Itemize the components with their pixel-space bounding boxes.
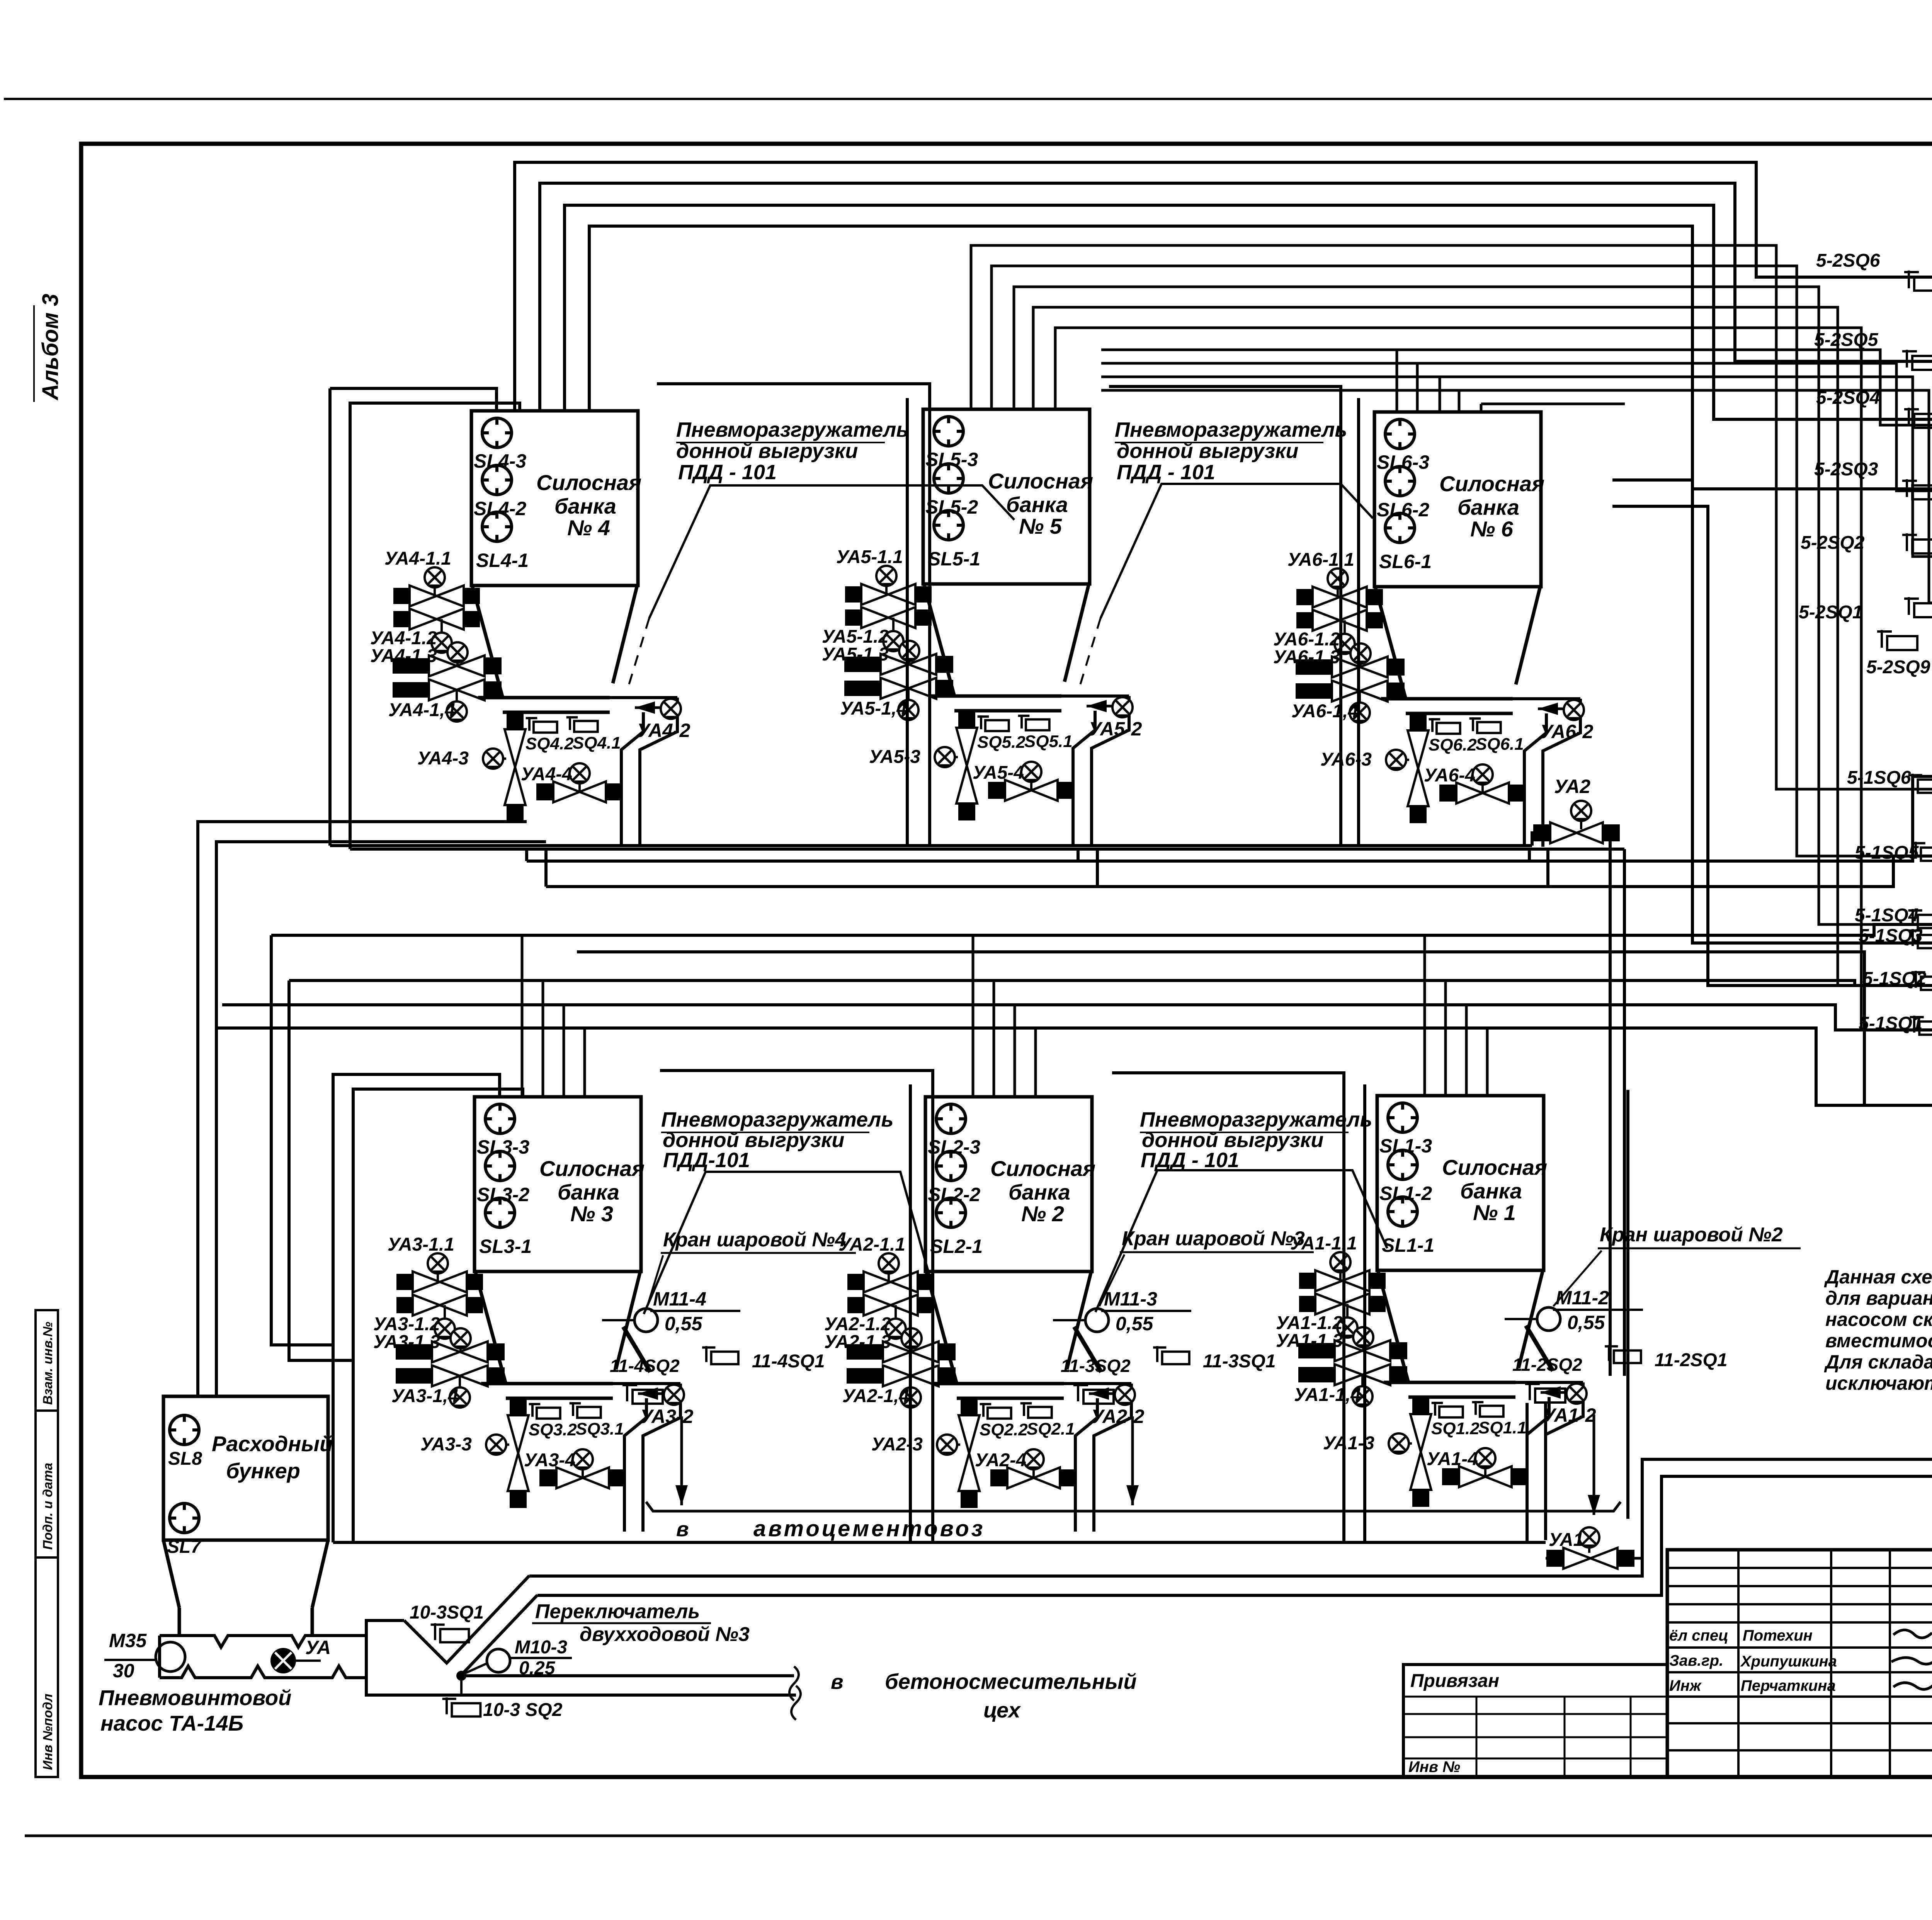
wire C1 — [1101, 350, 1932, 425]
limit switch SQ2.2 — [980, 1403, 1011, 1419]
svg-text:Пневморазгружатель: Пневморазгружатель — [661, 1108, 893, 1131]
lamp УА1-1.1 — [1339, 1262, 1342, 1281]
valve УА4-3 — [505, 712, 526, 822]
valve УА1 — [1546, 1548, 1634, 1569]
svg-text:УА3-2: УА3-2 — [640, 1406, 694, 1427]
svg-text:№ 3: № 3 — [570, 1202, 613, 1226]
hopper sensor SL8 — [170, 1415, 199, 1445]
svg-text:насос ТА-14Б: насос ТА-14Б — [100, 1711, 243, 1735]
svg-text:УА6-1.1: УА6-1.1 — [1287, 550, 1354, 570]
pump valve УА — [272, 1649, 295, 1672]
lamp УА3-2 — [664, 1385, 684, 1405]
svg-text:УА1-1.3: УА1-1.3 — [1276, 1331, 1343, 1351]
valve УА1-1.4 — [1298, 1364, 1407, 1385]
silo 6 level sensor SL6-2 — [1385, 466, 1415, 496]
svg-text:Силосная: Силосная — [990, 1156, 1095, 1181]
svg-text:Инв №: Инв № — [1408, 1758, 1460, 1775]
signatures — [1893, 1630, 1932, 1638]
wire B4 — [1033, 307, 1932, 986]
svg-text:для варианта с пневмовинтовым: для варианта с пневмовинтовым — [1825, 1287, 1932, 1309]
svg-text:SL6-2: SL6-2 — [1377, 499, 1429, 521]
svg-text:УА4-1,4: УА4-1,4 — [388, 700, 455, 720]
svg-text:банка: банка — [1006, 492, 1068, 517]
limit switch SQ5.2 — [978, 715, 1009, 731]
svg-text:М10-3: М10-3 — [515, 1637, 567, 1658]
svg-text:УА1-2: УА1-2 — [1543, 1404, 1596, 1426]
svg-text:Взам. инв.№: Взам. инв.№ — [41, 1322, 55, 1405]
svg-text:Кран шаровой №4: Кран шаровой №4 — [663, 1229, 846, 1251]
wire stub silo x1228 4 — [583, 1028, 586, 1097]
limit switch SQ6.2 — [1429, 718, 1460, 734]
lamp УА2-3 — [947, 1443, 960, 1446]
supply hopper Расходный бункер — [163, 1396, 328, 1540]
svg-text:УА5-4: УА5-4 — [973, 763, 1024, 783]
svg-text:насосом склада цемента: насосом склада цемента — [1825, 1309, 1932, 1330]
enclosure top row bottom duct — [330, 844, 1532, 847]
svg-text:Инж: Инж — [1669, 1677, 1702, 1694]
limit switch 5-2SQ9 — [1877, 630, 1917, 650]
wire stub silo x3564 1 — [1423, 935, 1426, 1097]
valve УА1-1.2 — [1299, 1294, 1386, 1314]
valve УА3-1.3 — [396, 1341, 505, 1362]
wire over silo5 to divider silo5/6 — [1109, 386, 1341, 846]
silo6 chute risers — [1528, 849, 1531, 861]
svg-text:банка: банка — [1460, 1179, 1522, 1203]
svg-text:УА3-1,4: УА3-1,4 — [391, 1386, 458, 1406]
limit switch 11-2SQ1 — [1605, 1345, 1641, 1363]
svg-text:ПДД-101: ПДД-101 — [663, 1149, 750, 1172]
svg-text:Расходный: Расходный — [212, 1431, 333, 1456]
lamp УА3-1.1 — [437, 1263, 439, 1282]
pipe pump to switch 3 — [363, 1634, 367, 1637]
svg-text:УА3-1.1: УА3-1.1 — [388, 1234, 454, 1255]
wire B1 — [971, 245, 1932, 789]
wire M3 — [271, 924, 1932, 935]
svg-text:SL1-1: SL1-1 — [1382, 1234, 1434, 1256]
silo 3 level sensor SL3-3 — [485, 1104, 515, 1134]
silo 6 funnel — [1375, 587, 1406, 699]
hopper funnel — [163, 1540, 179, 1608]
arrow down silo1 outlet — [1588, 1414, 1600, 1515]
svg-text:№ 5: № 5 — [1019, 514, 1062, 538]
valve УА1-1.3 — [1298, 1340, 1407, 1361]
svg-text:М11-3: М11-3 — [1104, 1288, 1157, 1310]
lamp УА2-2 — [1115, 1385, 1135, 1405]
limit switch 11-2SQ2 — [1525, 1382, 1565, 1403]
svg-text:№ 2: № 2 — [1021, 1202, 1064, 1226]
lamp УА6-3 — [1396, 759, 1409, 761]
wire over silo3 to divider silo3/2 — [660, 1071, 933, 1542]
lamp УА6-2 — [1564, 700, 1584, 720]
valve УА6-1.3 — [1296, 657, 1405, 677]
svg-text:Пневморазгружатель: Пневморазгружатель — [676, 418, 908, 441]
wire A2 — [515, 162, 1932, 411]
lamp УА1-1.4 — [1361, 1375, 1364, 1394]
valve УА5-1.2 — [845, 607, 932, 628]
wire C1 silo stub — [1396, 350, 1398, 412]
lamp УА2-1.1 — [888, 1263, 890, 1282]
margin column — [36, 1310, 58, 1777]
wire over silo4 to divider silo4/5 — [657, 384, 930, 846]
valve УА3-1.4 — [396, 1365, 505, 1386]
svg-text:5-1SQ3: 5-1SQ3 — [1859, 926, 1923, 946]
limit switch 5-1SQ4 — [1908, 909, 1932, 928]
valve УА4-1.1 — [393, 586, 480, 606]
pneumatic screw pump channel — [160, 1636, 363, 1647]
lamp УА1-2 — [1566, 1384, 1587, 1404]
svg-text:автоцементовоз: автоцементовоз — [753, 1516, 985, 1541]
svg-text:УА2-3: УА2-3 — [871, 1434, 923, 1455]
lamp УА3-1.3 — [459, 1338, 462, 1352]
svg-text:SL4-2: SL4-2 — [474, 498, 526, 519]
svg-text:банка: банка — [558, 1180, 619, 1204]
svg-text:УА4-2: УА4-2 — [637, 720, 690, 741]
svg-text:Пневморазгружатель: Пневморазгружатель — [1140, 1108, 1372, 1131]
unloader room outline bottom-mid — [1095, 1170, 1387, 1312]
svg-text:SQ1.2: SQ1.2 — [1431, 1419, 1480, 1438]
svg-text:УА5-3: УА5-3 — [869, 747, 920, 767]
lamp УА4-3 — [493, 757, 506, 760]
lamp УА2-1.2 — [895, 1305, 897, 1325]
lamp УА4-4 — [570, 763, 590, 783]
svg-text:банка: банка — [1009, 1180, 1070, 1204]
title block main outline — [1667, 1550, 1932, 1777]
silo 6 level sensor SL6-3 — [1385, 419, 1415, 449]
silo 1 level sensor SL1-2 — [1388, 1150, 1417, 1180]
svg-text:УА5-1.3: УА5-1.3 — [822, 644, 889, 665]
lamp УА6-4 — [1473, 764, 1493, 785]
valve УА6-1.1 — [1296, 587, 1383, 608]
valve УА3-4 body — [539, 1467, 626, 1488]
svg-text:11-3SQ1: 11-3SQ1 — [1203, 1351, 1276, 1372]
switch 3 outlet line — [461, 1674, 794, 1677]
unloader room outline bottom-left — [644, 1172, 930, 1314]
svg-text:УА1-4: УА1-4 — [1427, 1449, 1478, 1469]
lamp УА5-3 — [945, 756, 958, 758]
limit switch 5-1SQ5 — [1912, 842, 1932, 861]
silo 1 level sensor SL1-3 — [1388, 1103, 1417, 1132]
wire stub silo x2395 2 — [993, 980, 995, 1097]
valve УА6-2 arrow — [1538, 703, 1571, 715]
enclosure divider silo3/2 — [909, 1084, 912, 1542]
svg-text:0,55: 0,55 — [665, 1313, 703, 1334]
arrow down silo3 duct — [675, 1416, 688, 1505]
silo 4 level sensor SL4-3 — [482, 418, 512, 448]
sheet top edge line — [4, 98, 1932, 100]
svg-text:УА6-3: УА6-3 — [1320, 749, 1372, 770]
svg-text:SL6-3: SL6-3 — [1377, 451, 1429, 473]
svg-text:УА1-1,4: УА1-1,4 — [1294, 1385, 1361, 1405]
wire C4 — [1101, 390, 1932, 603]
svg-text:ёл спец: ёл спец — [1669, 1627, 1728, 1644]
svg-text:SL3-3: SL3-3 — [477, 1136, 529, 1158]
left vertical pair to hopper — [198, 822, 527, 1396]
svg-text:5-1SQ6: 5-1SQ6 — [1847, 768, 1911, 788]
valve УА4-1.3 — [393, 655, 502, 676]
svg-text:УА6-1,4: УА6-1,4 — [1291, 701, 1358, 722]
valve УА2-4 body — [990, 1467, 1077, 1488]
wire C5 silo stub — [1480, 404, 1483, 412]
silo 3 funnel — [475, 1271, 506, 1384]
enclosure right end bottom row — [1626, 1090, 1629, 1519]
valve УА1-2 arrow — [1541, 1386, 1573, 1399]
limit switch 11-4SQ1 — [702, 1346, 738, 1364]
wire D1 — [1612, 480, 1932, 943]
svg-text:исключаются 3 и 4 силосные б: исключаются 3 и 4 силосные банки. — [1825, 1372, 1932, 1394]
svg-text:30: 30 — [113, 1660, 134, 1682]
lamp УА6-1.4 — [1359, 691, 1361, 710]
svg-text:SL2-3: SL2-3 — [928, 1136, 980, 1158]
lamp УА5-1.4 — [907, 688, 910, 707]
svg-text:0,55: 0,55 — [1116, 1313, 1154, 1334]
svg-text:SQ4.2: SQ4.2 — [526, 734, 574, 753]
lamp УА4-1.3 — [456, 652, 459, 666]
wire stub silo x1228 3 — [563, 1005, 565, 1097]
svg-text:УА1: УА1 — [1549, 1530, 1583, 1550]
silo 5 level sensor SL5-3 — [934, 417, 963, 446]
svg-text:SQ3.1: SQ3.1 — [576, 1420, 624, 1438]
limit switch 5-1SQ2 — [1912, 971, 1932, 990]
lamp УА6-1.3 — [1359, 654, 1362, 667]
svg-text:10-3 SQ2: 10-3 SQ2 — [483, 1700, 563, 1720]
svg-text:УА4-1.1: УА4-1.1 — [384, 548, 451, 569]
silo bank №1 body — [1377, 1096, 1544, 1270]
enclosure bottom row bottom duct — [333, 1541, 1546, 1544]
valve УА2-1.2 — [847, 1295, 934, 1316]
svg-text:Силосная: Силосная — [1442, 1155, 1547, 1180]
svg-text:Для склада вместимостью: Для склада вместимостью т — [1824, 1351, 1932, 1373]
svg-text:SQ5.1: SQ5.1 — [1024, 732, 1073, 751]
svg-text:SL3-2: SL3-2 — [477, 1184, 529, 1205]
valve УА5-1.1 — [845, 584, 932, 605]
silo 3 outlet duct — [613, 1382, 680, 1385]
svg-text:Потехин: Потехин — [1743, 1627, 1813, 1644]
svg-text:SQ6.1: SQ6.1 — [1476, 735, 1524, 754]
valve УА4-4 body — [536, 781, 623, 802]
enclosure divider silo2/1 — [1363, 1084, 1366, 1542]
dashed leader to УА4-2 — [627, 618, 649, 692]
wire B2 — [992, 266, 1932, 856]
valve УА1-1.1 — [1299, 1270, 1386, 1291]
limit switch 5-1SQ3 — [1908, 929, 1932, 948]
svg-text:ПДД - 101: ПДД - 101 — [1141, 1149, 1239, 1172]
svg-text:Силосная: Силосная — [536, 470, 641, 495]
svg-text:банка: банка — [1458, 495, 1519, 519]
limit switch SQ1.1 — [1472, 1401, 1503, 1417]
silo 6 level sensor SL6-1 — [1385, 513, 1415, 543]
limit switch 5-1SQ6 — [1908, 774, 1932, 793]
limit switch SQ3.1 — [570, 1402, 601, 1418]
svg-text:Пневмовинтовой: Пневмовинтовой — [99, 1685, 291, 1710]
dashed leader to УА5-2 — [1078, 618, 1100, 692]
wire M4 — [289, 980, 1932, 986]
valve УА5-2 arrow — [1087, 700, 1119, 712]
svg-text:SL1-3: SL1-3 — [1379, 1135, 1432, 1157]
lamp УА1-1.3 — [1362, 1337, 1364, 1351]
wire stub silo x1228 2 — [542, 980, 544, 1097]
silo 6 outlet duct — [1513, 697, 1580, 700]
svg-text:УА4-3: УА4-3 — [417, 748, 469, 769]
svg-text:5-2SQ5: 5-2SQ5 — [1814, 330, 1879, 350]
limit switch 11-3SQ1 — [1153, 1346, 1189, 1364]
svg-text:Инв №подл: Инв №подл — [41, 1694, 55, 1770]
svg-text:Пневморазгружатель: Пневморазгружатель — [1115, 418, 1347, 441]
svg-text:SL5-3: SL5-3 — [925, 449, 978, 470]
silo bank №4 body — [471, 411, 638, 586]
wire C4 silo stub — [1458, 390, 1461, 412]
silo 1 outlet duct — [1515, 1381, 1583, 1384]
svg-text:SL2-2: SL2-2 — [928, 1184, 980, 1205]
limit switch 5-2SQ1 — [1904, 597, 1932, 617]
limit switch 11-3SQ2 — [1073, 1384, 1114, 1404]
svg-text:Альбом 3: Альбом 3 — [38, 294, 63, 401]
lamp УА5-1.3 — [908, 651, 910, 664]
svg-text:УА4-1.3: УА4-1.3 — [370, 646, 437, 666]
ball valve motor М11-4 — [634, 1309, 658, 1332]
sheet bottom fold line — [25, 1835, 1932, 1837]
svg-text:Переключатель: Переключатель — [535, 1600, 700, 1623]
svg-text:в: в — [831, 1670, 844, 1694]
wire stub silo x3564 4 — [1486, 1028, 1489, 1097]
svg-text:SQ3.2: SQ3.2 — [529, 1420, 577, 1439]
svg-text:УА5-1,4: УА5-1,4 — [840, 698, 907, 719]
svg-text:SL3-1: SL3-1 — [479, 1236, 532, 1257]
lamp УА1-3 — [1399, 1442, 1412, 1445]
svg-text:10-3SQ1: 10-3SQ1 — [410, 1602, 484, 1623]
silo5 chute risers — [1077, 849, 1080, 861]
two-way switch №3 box — [366, 1620, 796, 1695]
svg-text:SL4-1: SL4-1 — [476, 550, 529, 571]
lamp УА4-1.4 — [456, 690, 458, 709]
wire C2 silo stub — [1416, 363, 1419, 412]
svg-text:11-4SQ2: 11-4SQ2 — [610, 1356, 680, 1376]
lamp УА3-1.4 — [459, 1376, 461, 1395]
wire M2 left riser — [544, 849, 548, 887]
limit switch SQ5.1 — [1018, 715, 1049, 730]
silo 3 level sensor SL3-1 — [485, 1198, 515, 1227]
limit switch SQ3.2 — [529, 1403, 560, 1419]
lamp УА1-1.2 — [1346, 1304, 1349, 1324]
lamp УА5-2 — [1112, 697, 1133, 717]
lamp УА6-1.1 — [1337, 579, 1339, 597]
svg-text:бетоносмесительный: бетоносмесительный — [885, 1669, 1137, 1694]
switch 3 inner diagonal — [461, 1595, 537, 1676]
limit switch 5-2SQ2 — [1902, 533, 1932, 553]
valve УА5-1.4 — [844, 678, 953, 699]
wire C2 — [1101, 363, 1932, 491]
wire over silo2 to divider silo2/1 — [1112, 1073, 1344, 1542]
extension table Привязан — [1403, 1665, 1667, 1777]
valve УА2-1.1 — [847, 1271, 934, 1292]
wire M2 — [546, 856, 1932, 887]
wire M4 left drop to pump switch — [289, 980, 353, 1360]
pipe down from УА2 to silo1 area — [1607, 831, 1610, 834]
svg-text:банка: банка — [554, 494, 616, 518]
svg-text:бункер: бункер — [226, 1459, 300, 1483]
valve УА2-1.3 — [847, 1341, 956, 1362]
svg-text:5-2SQ3: 5-2SQ3 — [1814, 459, 1878, 480]
lamp УА4-1.1 — [434, 577, 436, 596]
wire A4 — [565, 205, 1932, 419]
svg-text:№ 6: № 6 — [1470, 517, 1514, 541]
bottom long line P1 — [529, 1459, 1932, 1576]
silo 2 outlet duct — [1064, 1382, 1131, 1385]
wire M3 left drop to pump switch — [271, 935, 333, 1345]
silo 2 level sensor SL2-3 — [936, 1104, 966, 1134]
silo 5 level sensor SL5-2 — [934, 464, 963, 493]
lamp УА4-2 — [661, 699, 681, 719]
svg-text:УА6-1.3: УА6-1.3 — [1273, 647, 1340, 667]
silo 1 level sensor SL1-1 — [1388, 1197, 1417, 1226]
valve УА1-4 body — [1442, 1466, 1529, 1487]
wire stub silo x2395 3 — [1014, 1005, 1016, 1097]
svg-text:11-2SQ2: 11-2SQ2 — [1512, 1355, 1582, 1375]
silo 5 level sensor SL5-1 — [934, 511, 963, 540]
svg-text:SL7: SL7 — [167, 1537, 202, 1557]
wire loop into silo3 from enclosure wall — [333, 1074, 500, 1542]
wire A5 — [589, 226, 1932, 489]
limit switch 10-3SQ2 — [442, 1697, 481, 1716]
silo 5 outlet duct — [1061, 694, 1129, 698]
valve УА3-1.1 — [396, 1271, 483, 1292]
silo 4 level sensor SL4-1 — [482, 512, 512, 541]
svg-text:ПДД - 101: ПДД - 101 — [678, 461, 777, 484]
valve УА3-2 arrow — [638, 1387, 671, 1400]
svg-text:УА2-2: УА2-2 — [1091, 1406, 1145, 1427]
svg-text:5-2SQ6: 5-2SQ6 — [1816, 250, 1880, 271]
lamp УА5-1.1 — [885, 576, 888, 594]
svg-text:УА5-2: УА5-2 — [1088, 718, 1142, 740]
limit switch SQ1.2 — [1432, 1402, 1463, 1418]
arrow down silo2 duct — [1126, 1416, 1139, 1505]
svg-text:Подп. и дата: Подп. и дата — [41, 1463, 55, 1550]
silo 5 funnel — [924, 584, 954, 696]
valve УА3-1.2 — [396, 1295, 483, 1316]
wire M-extra — [577, 952, 1864, 1105]
motor М10-3 — [487, 1649, 510, 1672]
svg-text:УА: УА — [305, 1637, 331, 1658]
limit switch 11-4SQ2 — [622, 1384, 663, 1404]
silo bank №6 body — [1374, 412, 1541, 587]
valve УА2-2 arrow — [1089, 1387, 1122, 1400]
svg-text:5-1SQ1: 5-1SQ1 — [1859, 1013, 1922, 1034]
lamp УА2-1.4 — [910, 1376, 912, 1395]
svg-text:№ 1: № 1 — [1473, 1200, 1516, 1225]
svg-text:вместимостью 360т.: вместимостью 360т. — [1825, 1330, 1932, 1351]
svg-text:двухходовой №3: двухходовой №3 — [580, 1623, 750, 1646]
junction dot — [456, 1671, 466, 1681]
valve УА2-3 — [959, 1398, 980, 1508]
silo 1 funnel — [1378, 1270, 1408, 1382]
svg-text:УА2-4: УА2-4 — [975, 1450, 1026, 1471]
lamp УА1-4 — [1475, 1448, 1495, 1468]
silo bank №2 body — [925, 1097, 1092, 1271]
svg-text:SL6-1: SL6-1 — [1379, 551, 1432, 572]
enclosure top row left wall — [328, 388, 332, 846]
duct elbow to УА2 — [1532, 833, 1546, 846]
lamp УА3-1.2 — [444, 1305, 446, 1325]
bottom long line P2 — [537, 1476, 1932, 1595]
svg-text:УА6-2: УА6-2 — [1540, 721, 1594, 742]
svg-text:5-2SQ2: 5-2SQ2 — [1801, 533, 1865, 553]
valve УА5-4 body — [988, 780, 1075, 801]
svg-text:Хрипушкина: Хрипушкина — [1740, 1653, 1837, 1670]
wire B5 — [1055, 328, 1932, 1030]
silo bank №3 body — [474, 1097, 641, 1271]
svg-text:SL4-3: SL4-3 — [474, 450, 526, 472]
silo 3 level sensor SL3-2 — [485, 1151, 515, 1181]
svg-text:SL5-1: SL5-1 — [928, 548, 980, 570]
